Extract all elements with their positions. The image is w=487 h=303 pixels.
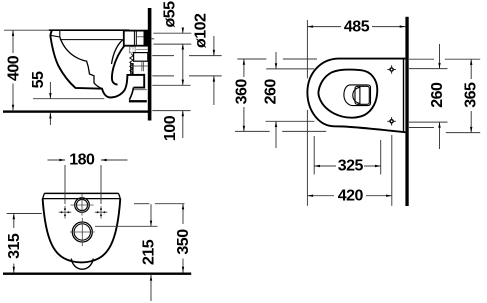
svg-text:365: 365 bbox=[463, 82, 480, 108]
seat inner line bbox=[60, 39, 123, 41]
drain outer bbox=[344, 85, 371, 106]
260L shafts bbox=[275, 52, 277, 69]
bolt top bbox=[387, 65, 395, 73]
inner bowl ledge and steps bbox=[60, 37, 102, 89]
325 exts bbox=[313, 136, 315, 175]
350 shaft bbox=[182, 204, 184, 224]
foot bottom thick bbox=[129, 100, 147, 102]
215 tick bbox=[95, 225, 158, 227]
o102 shafts bbox=[213, 36, 215, 56]
svg-text:400: 400 bbox=[6, 55, 23, 81]
outer outline bbox=[307, 59, 405, 133]
260R shafts bbox=[439, 44, 441, 69]
drain inner rect bbox=[355, 86, 369, 104]
svg-text:260: 260 bbox=[263, 79, 280, 105]
outlet bump bbox=[71, 259, 93, 270]
svg-text:485: 485 bbox=[344, 19, 370, 36]
tick: top of toilet bbox=[4, 29, 49, 31]
front rim lip bbox=[50, 30, 60, 37]
365 shaft bbox=[470, 59, 472, 79]
180 shafts bbox=[48, 159, 66, 161]
arrows side view bbox=[12, 30, 14, 36]
svg-text:55: 55 bbox=[30, 71, 47, 88]
260L ticks bbox=[266, 68, 314, 70]
top band bbox=[44, 192, 118, 194]
top view dimensions bbox=[235, 20, 480, 206]
right ticks bbox=[409, 58, 434, 60]
svg-text:260: 260 bbox=[429, 82, 446, 108]
325 shafts bbox=[314, 165, 336, 167]
svg-text:215: 215 bbox=[141, 239, 158, 265]
outlet stub inner line bbox=[133, 89, 146, 91]
rim top line bbox=[49, 29, 130, 31]
315 shaft bbox=[13, 214, 15, 229]
svg-text:100: 100 bbox=[162, 115, 179, 141]
zigzag flexible section bbox=[130, 54, 133, 75]
bolt bottom bbox=[387, 117, 395, 125]
right-of-wall tick lines bbox=[153, 32, 191, 34]
chain shaft (o55 / 100) bbox=[182, 28, 184, 34]
svg-text:ø55: ø55 bbox=[161, 1, 178, 28]
dim 400 shaft bbox=[12, 30, 14, 53]
body bbox=[43, 199, 121, 263]
side view dimensions bbox=[4, 28, 222, 139]
bolt mark left bbox=[59, 206, 72, 219]
tank connector block bbox=[124, 31, 148, 46]
315 tick bbox=[7, 213, 42, 215]
svg-text:180: 180 bbox=[69, 152, 95, 169]
tick for 55 bbox=[33, 98, 104, 100]
bolt mark right bbox=[95, 206, 108, 219]
back outer curve bbox=[112, 45, 125, 84]
svg-text:350: 350 bbox=[175, 229, 192, 255]
drain D lobe bbox=[353, 87, 360, 103]
right edge line bbox=[403, 59, 405, 132]
350 tick bbox=[134, 203, 149, 205]
svg-text:360: 360 bbox=[233, 79, 250, 105]
420 right ext bbox=[391, 135, 393, 206]
svg-text:315: 315 bbox=[6, 233, 23, 259]
180 ext lines bbox=[64, 165, 66, 204]
foot curve bbox=[129, 88, 133, 100]
420 shafts bbox=[307, 195, 334, 197]
wall (top view) bbox=[405, 17, 408, 206]
dim 55 shafts bbox=[49, 82, 51, 99]
svg-text:420: 420 bbox=[338, 187, 364, 204]
connector thin lines bbox=[133, 65, 148, 67]
215 shafts bbox=[150, 204, 152, 226]
wall (side view) bbox=[148, 8, 152, 121]
inner bowl bbox=[318, 70, 377, 118]
svg-text:ø102: ø102 bbox=[192, 13, 209, 48]
svg-text:325: 325 bbox=[338, 158, 364, 175]
floor (side view) bbox=[3, 110, 151, 112]
485 shafts bbox=[307, 26, 341, 28]
floor (front view) bbox=[3, 273, 191, 275]
inlet circle bbox=[75, 198, 90, 213]
dotted block (supply) bbox=[129, 47, 135, 53]
outlet circle bbox=[72, 222, 92, 242]
toilet side silhouette: front face, underside, outer trap bbox=[50, 30, 144, 97]
360 ticks bbox=[237, 58, 266, 60]
360 shaft bbox=[243, 59, 245, 77]
485 / 420 left ext bbox=[306, 20, 308, 79]
connector block bbox=[134, 53, 148, 62]
front view dimensions bbox=[7, 160, 185, 301]
inner bowl back curve bbox=[112, 40, 123, 64]
outlet riser lines bbox=[130, 63, 132, 75]
